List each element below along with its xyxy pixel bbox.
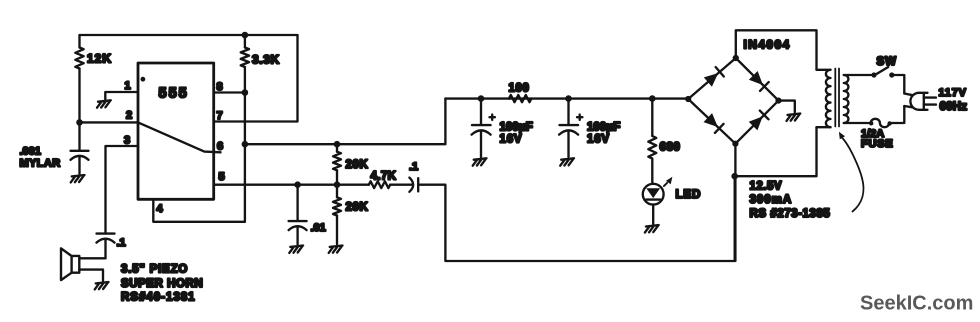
wire pin 7 up to rail <box>214 35 298 122</box>
svg-text:IN4004: IN4004 <box>744 38 791 52</box>
wire switch to plug <box>894 75 904 94</box>
svg-text:680: 680 <box>660 142 681 154</box>
wire top rail V+/pin7 net <box>80 34 298 36</box>
node filter cap2 junction <box>565 95 572 102</box>
plug 117V <box>904 94 912 108</box>
svg-text:16V: 16V <box>500 133 523 145</box>
svg-text:SUPER HORN: SUPER HORN <box>121 278 203 290</box>
capacitor C 100uF #2 <box>559 99 578 157</box>
svg-text:.01: .01 <box>311 222 326 234</box>
svg-text:100μF: 100μF <box>587 122 620 134</box>
resistor 12K <box>75 48 83 69</box>
svg-text:SW: SW <box>877 56 898 68</box>
svg-text:100: 100 <box>509 83 530 95</box>
node 680 junction <box>649 95 656 102</box>
node bridge bottom vertex <box>732 141 738 147</box>
capacitor .1 (piezo coupling) <box>97 234 115 259</box>
svg-text:3: 3 <box>124 135 130 147</box>
node .01 junction <box>294 181 301 188</box>
transformer T1 secondary coil <box>826 70 831 127</box>
pointer arrow to transformer <box>842 138 863 212</box>
svg-text:FUSE: FUSE <box>861 138 894 150</box>
switch SW <box>871 72 876 77</box>
diode D4 (bottom-right) <box>749 116 763 130</box>
svg-text:LED: LED <box>676 189 702 201</box>
node 20K mid junction <box>334 181 341 188</box>
resistor 20K upper <box>336 144 338 185</box>
wire 4.7K to cap <box>390 184 412 186</box>
wire bridge top to transformer secondary <box>736 30 817 70</box>
svg-text:16V: 16V <box>587 133 610 145</box>
wire piezo terminals <box>79 258 105 281</box>
resistor 100 <box>509 95 532 102</box>
ground (piezo) <box>95 282 109 289</box>
resistor 20K lower <box>336 185 338 245</box>
node bridge top vertex <box>733 55 739 61</box>
ground (cap2) <box>560 158 574 165</box>
resistor 3.3K <box>241 48 249 68</box>
transformer core <box>835 69 839 127</box>
capacitor .01 <box>289 185 307 245</box>
node V+ mid junction <box>242 141 249 148</box>
ground (LED) <box>645 225 659 232</box>
svg-text:.001: .001 <box>20 146 41 158</box>
wire pin 8 <box>214 91 245 93</box>
node bridge right vertex <box>775 98 781 104</box>
transformer T1 primary coil <box>844 75 849 123</box>
ground (pin 1) <box>97 100 111 107</box>
ground (cap1) <box>473 158 487 165</box>
capacitor C 100uF #1 <box>472 99 491 157</box>
diode D1 (left-top) <box>704 73 718 87</box>
node pin8 junction <box>242 89 249 96</box>
svg-text:6: 6 <box>217 141 223 153</box>
svg-text:300mA: 300mA <box>750 194 793 206</box>
svg-text:4: 4 <box>157 203 164 215</box>
wire V+ vertical x=245 (3.3K / pin8 / pin4) <box>244 35 246 222</box>
ground (.01 cap) <box>289 246 303 253</box>
wire bridge right vertex to ground <box>779 101 795 113</box>
diode D3 (left-bottom) <box>704 113 718 127</box>
svg-text:1: 1 <box>125 80 131 92</box>
svg-text:12K: 12K <box>87 52 112 66</box>
svg-text:SeekIC.com: SeekIC.com <box>860 293 973 315</box>
svg-text:20K: 20K <box>346 159 369 171</box>
resistor 4.7K <box>369 181 390 188</box>
node bridge left vertex <box>685 96 691 102</box>
wire pin 5 output line <box>214 184 369 186</box>
svg-text:4.7K: 4.7K <box>371 171 397 183</box>
wire pin 3 down to coupling cap <box>106 146 139 233</box>
svg-text:60Hz: 60Hz <box>940 101 968 113</box>
wire 12K branch vertical <box>78 35 80 151</box>
wire DC supply line <box>445 97 688 99</box>
svg-text:3.3K: 3.3K <box>252 53 280 67</box>
svg-text:RS #273-1385: RS #273-1385 <box>750 208 831 220</box>
capacitor .1 (output coupling) <box>409 178 418 192</box>
node secondary return junction <box>731 173 738 180</box>
wire cap to bottom run <box>418 176 735 261</box>
ground (bridge) <box>787 114 801 121</box>
resistor 680 <box>651 99 653 184</box>
ground (.001 cap) <box>71 175 85 182</box>
wire secondary bottom return <box>735 127 817 176</box>
node 3.3K top on rail <box>242 32 249 39</box>
wire V+ feed line y=144 <box>245 99 446 145</box>
ground (20K) <box>329 246 343 253</box>
svg-text:.1: .1 <box>409 161 418 173</box>
svg-text:555: 555 <box>159 86 189 102</box>
wire pin 4 to V+ vertical <box>153 199 245 222</box>
svg-text:3.5" PIEZO: 3.5" PIEZO <box>121 264 188 276</box>
wire bridge bottom to bottom run <box>734 144 736 261</box>
node filter cap1 junction <box>478 95 485 102</box>
svg-text:12.5V: 12.5V <box>750 181 783 193</box>
svg-text:MYLAR: MYLAR <box>20 158 61 170</box>
svg-text:117V: 117V <box>939 87 967 99</box>
fuse 1/2A <box>871 106 905 127</box>
node 20K top junction <box>334 141 341 148</box>
speaker piezo horn <box>61 248 79 280</box>
svg-text:.1: .1 <box>117 237 126 249</box>
svg-text:100μF: 100μF <box>500 122 533 134</box>
wire pin 1 to ground <box>105 92 138 99</box>
LED <box>643 184 664 205</box>
svg-text:5: 5 <box>219 171 225 183</box>
LED emission arrow <box>664 183 667 186</box>
IC U1 555 timer box <box>138 63 214 199</box>
svg-text:RS#40-1381: RS#40-1381 <box>121 292 196 304</box>
bridge rectifier diamond 1N4004 <box>688 58 778 144</box>
capacitor .001 <box>71 151 89 174</box>
svg-text:7: 7 <box>217 110 223 122</box>
wire pin 2 <box>80 121 139 123</box>
pin 1 indicator dot <box>141 77 146 82</box>
node pin2 junction <box>76 119 83 126</box>
svg-text:20K: 20K <box>346 202 369 214</box>
svg-text:2: 2 <box>126 110 132 122</box>
wire internal diagonal pin2-pin6 <box>138 122 221 152</box>
svg-text:8: 8 <box>217 81 223 93</box>
diode D2 (top-right) <box>749 71 763 85</box>
